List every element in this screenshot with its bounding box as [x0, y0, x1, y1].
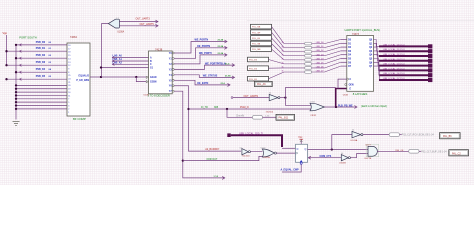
- svg-text:POL_E5: POL_E5: [249, 79, 258, 81]
- wire PSB_D2 to comparator pin: [15, 57, 67, 59]
- svg-text:1k: 1k: [282, 63, 284, 65]
- net flag POL_E4: [248, 66, 269, 71]
- target box PAL_A6: [255, 81, 273, 86]
- net flag POL_WT: [251, 30, 272, 35]
- wire Y6 drop to inverter: [174, 86, 241, 151]
- svg-text:U102A: U102A: [263, 156, 270, 159]
- svg-text:U477B: U477B: [365, 158, 372, 160]
- background grid: [0, 0, 474, 185]
- svg-text:PLB_PB_WE: PLB_PB_WE: [338, 104, 353, 107]
- svg-text:PSB_D4: PSB_D4: [36, 68, 46, 71]
- svg-text:U103A: U103A: [351, 139, 358, 142]
- svg-text:LBB_D0: LBB_D0: [316, 42, 325, 44]
- svg-text:OUT_UART3: OUT_UART3: [136, 17, 151, 20]
- arrow Y7 wire end: [222, 176, 225, 179]
- svg-text:POL_LB: POL_LB: [252, 38, 260, 40]
- svg-text:8: 8: [68, 72, 69, 74]
- wire FF clear to label: [282, 164, 301, 172]
- inverter U9: [352, 131, 363, 137]
- wire fan to resistor R2: [284, 47, 305, 49]
- svg-text:OUT_UARTN: OUT_UARTN: [244, 95, 259, 98]
- wire flag POL_LB to resistor: [272, 38, 285, 52]
- wire bead B3 out: [419, 150, 421, 152]
- svg-text:7: 7: [68, 99, 69, 101]
- wire Q4 to bus bar: [374, 55, 380, 66]
- and-gate U11: [366, 144, 379, 156]
- svg-text:10: 10: [68, 45, 70, 47]
- svg-text:LBB_LOCAL_D[0..7]: LBB_LOCAL_D[0..7]: [239, 131, 263, 135]
- ferrite bead B3: [409, 150, 419, 154]
- wire Y5 output OE_EXTN: [174, 80, 230, 86]
- ferrite bead B1: [253, 116, 263, 120]
- svg-text:21-24: 21-24: [218, 52, 224, 55]
- net label PSB_D3: [36, 61, 52, 64]
- wire fan to resistor R7: [284, 67, 305, 69]
- or-gate U4: [310, 103, 325, 111]
- wire inverter out to junction: [280, 96, 287, 98]
- svg-text:WE_PORTP/TBLN: WE_PORTP/TBLN: [205, 62, 226, 65]
- net label PSB_D1: [36, 47, 52, 50]
- svg-text:16: 16: [68, 92, 70, 94]
- wire resistor R5 to latch D4: [312, 55, 341, 60]
- wire flag POL_E5 to resistor: [269, 72, 285, 79]
- svg-text:G2BN: G2BN: [150, 82, 157, 84]
- inverter U6: [242, 149, 251, 155]
- bus bar LBB_LOCAL_D3: [379, 58, 432, 63]
- svg-text:17: 17: [68, 48, 70, 50]
- svg-text:LBB_D2: LBB_D2: [316, 50, 325, 52]
- resistor R2: [305, 46, 312, 49]
- svg-text:IO_TR: IO_TR: [201, 107, 208, 109]
- svg-text:1k: 1k: [282, 54, 284, 56]
- svg-text:OUT_UART5: OUT_UART5: [140, 23, 155, 26]
- svg-text:21-6: 21-6: [221, 83, 226, 85]
- svg-text:20: 20: [68, 85, 70, 87]
- svg-text:D: D: [297, 148, 299, 151]
- input port arrow symbol: [108, 19, 119, 28]
- latch U5 74373 body: [345, 36, 374, 92]
- bus bar LBB_LOCAL_D5: [379, 67, 432, 72]
- target box PAL_C2: [449, 150, 469, 156]
- svg-text:COM_CTS: COM_CTS: [320, 155, 332, 158]
- wire Y0 output WE_PORTN: [174, 40, 227, 53]
- svg-text:PGM_N: PGM_N: [240, 106, 249, 109]
- wire Q1 to bus bar: [374, 43, 380, 51]
- svg-text:74138: 74138: [155, 47, 163, 51]
- wire junction down to OR: [285, 98, 310, 106]
- wire comparator low pin 6: [15, 104, 67, 106]
- resistor R5: [305, 59, 312, 62]
- svg-text:2: 2: [68, 109, 69, 111]
- wire G1 input: [100, 66, 149, 68]
- svg-text:Q: Q: [305, 148, 307, 151]
- wire fan to resistor R4: [284, 55, 305, 57]
- svg-text:18: 18: [68, 52, 70, 54]
- target box PAL_B11: [276, 114, 295, 120]
- svg-text:R44_OE: R44_OE: [395, 150, 404, 152]
- svg-text:LBB_D7: LBB_D7: [316, 71, 325, 73]
- svg-text:POL_E4: POL_E4: [249, 68, 258, 70]
- wire G2BN link: [136, 77, 148, 82]
- wire OR output PLB_PB_WE: [325, 106, 358, 109]
- svg-text:PAL_B11: PAL_B11: [279, 117, 289, 120]
- svg-text:74373: 74373: [352, 33, 360, 36]
- wire PGM_N long: [189, 108, 312, 110]
- net flag POL_E5: [248, 76, 269, 81]
- wire resistor R8 to latch D7: [312, 66, 341, 72]
- svg-text:OE_EXTN: OE_EXTN: [197, 82, 208, 85]
- net label PSB_D0: [36, 41, 52, 44]
- wire comparator low pin 2: [15, 91, 67, 93]
- svg-text:21-24: 21-24: [218, 45, 224, 48]
- svg-text:3: 3: [68, 105, 69, 107]
- svg-text:POL_WT: POL_WT: [252, 32, 261, 34]
- svg-text:21-85: 21-85: [225, 76, 231, 78]
- wire U9 out to bead: [363, 134, 389, 136]
- svg-text:LBB_LOCAL_D0 21-3: LBB_LOCAL_D0 21-3: [383, 43, 405, 46]
- svg-text:LBB_D4: LBB_D4: [316, 58, 325, 60]
- decoder U2 74138 body: [146, 51, 174, 94]
- wire B input: [112, 60, 149, 62]
- wire resistor R3 to latch D2: [312, 47, 341, 52]
- resistor R4: [305, 54, 312, 57]
- ground symbol: [13, 122, 20, 126]
- svg-text:PSB_D1: PSB_D1: [36, 47, 46, 50]
- wire branch up to port: [102, 24, 109, 77]
- svg-text:8 LATCHES: 8 LATCHES: [353, 92, 368, 96]
- wire fan to resistor R1: [284, 43, 305, 45]
- bus thick LBB_LOCAL_D: [231, 135, 282, 147]
- bus bar LBB_LOCAL_D7: [379, 77, 432, 82]
- wire flag POL_E4 to resistor: [269, 67, 285, 69]
- wire bus to FF D: [282, 147, 296, 149]
- wire PSB_D1 to comparator pin: [5, 50, 67, 52]
- svg-text:P_GR_GBN: P_GR_GBN: [76, 80, 89, 82]
- svg-text:U100A: U100A: [117, 31, 124, 34]
- net flag POL_MB: [251, 47, 272, 52]
- svg-text:A_EQUAL_CMP: A_EQUAL_CMP: [281, 169, 299, 172]
- svg-text:OE_PORTN: OE_PORTN: [197, 45, 210, 48]
- svg-text:POL_NB: POL_NB: [252, 27, 261, 29]
- svg-text:WE_PORTI: WE_PORTI: [199, 52, 212, 55]
- svg-text:5: 5: [68, 102, 69, 104]
- svg-text:OEN: OEN: [349, 85, 354, 87]
- wire OUT_UARTN input: [231, 97, 269, 99]
- net label OE_EXTN: [197, 82, 226, 85]
- svg-text:14: 14: [68, 58, 70, 60]
- flip-flop U8 body: [296, 144, 308, 164]
- svg-text:LBB_D5: LBB_D5: [316, 62, 325, 64]
- wire flag POL_WT to resistor: [272, 32, 285, 47]
- wire Y2 output WE_PORTI: [174, 53, 227, 64]
- svg-text:A2_BUFRDY: A2_BUFRDY: [205, 148, 219, 151]
- wire bead to box: [263, 116, 277, 118]
- wire fan to resistor R8: [284, 71, 305, 73]
- wire bead B2 out: [400, 134, 402, 136]
- svg-text:74LS04: 74LS04: [266, 112, 274, 114]
- svg-text:PS2_CLT_BUF_OE 1-34: PS2_CLT_BUF_OE 1-34: [421, 151, 447, 153]
- wire FF Q output: [308, 148, 369, 150]
- wire fan to resistor R5: [284, 59, 305, 61]
- junction Y7 tap: [182, 159, 184, 161]
- wire resistor R1 to latch D0: [312, 40, 341, 44]
- wire to bead B1: [227, 109, 253, 117]
- svg-text:1k: 1k: [282, 42, 284, 44]
- svg-text:Chen4b: Chen4b: [236, 116, 245, 118]
- net label WE_PORTP/TBLN: [205, 62, 230, 65]
- svg-text:3 TA: 3 TA: [214, 175, 219, 178]
- net label WE_PORTI: [199, 52, 224, 55]
- svg-text:LBB_LOCAL_D7 21-3: LBB_LOCAL_D7 21-3: [383, 77, 405, 80]
- junction Y6 PGM tap: [187, 108, 189, 110]
- wire Q2 to bus bar: [374, 47, 380, 56]
- wire PSB_D5 to comparator pin: [5, 78, 67, 80]
- wire flag POL_NB to resistor: [272, 27, 285, 44]
- svg-text:74F32: 74F32: [310, 115, 317, 117]
- net flag POL_NB: [251, 24, 272, 29]
- svg-text:LBB_LOCAL_D4 21-3: LBB_LOCAL_D4 21-3: [383, 63, 405, 66]
- inverter U10: [341, 155, 350, 161]
- bus bar LBB_LOCAL_D2: [379, 53, 432, 58]
- svg-text:9: 9: [68, 68, 69, 70]
- svg-text:POL_SB: POL_SB: [252, 44, 261, 46]
- svg-text:12: 12: [68, 65, 70, 67]
- wire comparator low pin 1: [15, 88, 67, 90]
- svg-text:1-34: 1-34: [265, 116, 270, 118]
- svg-text:PAL_C2: PAL_C2: [452, 152, 461, 155]
- svg-text:LBB_LOCAL_D1 21-3: LBB_LOCAL_D1 21-3: [383, 48, 405, 51]
- svg-text:PSB_D3: PSB_D3: [36, 61, 46, 64]
- bus bar LBB_LOCAL_D6: [379, 72, 432, 77]
- svg-text:(latch is 100 bar clipsd): (latch is 100 bar clipsd): [361, 105, 387, 108]
- resistor R8: [305, 71, 312, 74]
- svg-text:19: 19: [68, 89, 70, 91]
- svg-text:1k: 1k: [282, 71, 284, 73]
- wire OUT_UART3: [119, 20, 158, 23]
- svg-text:G2AN: G2AN: [150, 76, 157, 79]
- wire resistor R4 to latch D3: [312, 51, 341, 56]
- resistor R1: [305, 42, 312, 45]
- svg-text:LBB_D1: LBB_D1: [316, 46, 325, 48]
- svg-text:3 TO 8 DECODER: 3 TO 8 DECODER: [148, 94, 170, 98]
- wire Q0 to bus bar: [374, 40, 380, 47]
- comparator U1 74684 body: [67, 43, 90, 116]
- net label WE_PORTN: [195, 39, 224, 42]
- wire A input: [112, 56, 149, 58]
- svg-text:21: 21: [68, 82, 70, 84]
- svg-text:LBB_D6: LBB_D6: [316, 66, 325, 68]
- resistor R6: [305, 63, 312, 66]
- power stub Vcc to FF: [299, 139, 303, 144]
- svg-text:PORT SOUTH: PORT SOUTH: [19, 35, 37, 39]
- svg-text:LAB_A2: LAB_A2: [113, 61, 123, 64]
- net label PSB_D5: [36, 75, 52, 78]
- wire PSB_D4 to comparator pin: [15, 71, 67, 73]
- wire comparator low pin 5: [15, 101, 67, 103]
- svg-text:PS2_CLT_RCV_ECM_OE 1-34: PS2_CLT_RCV_ECM_OE 1-34: [402, 135, 435, 137]
- svg-text:EQUAL/O: EQUAL/O: [79, 75, 90, 78]
- wire U10 out to AND: [350, 154, 368, 158]
- wire comparator low pin 7: [15, 108, 67, 110]
- wire comparator low pin 3: [15, 94, 67, 96]
- wire resistor R7 to latch D6: [312, 62, 341, 68]
- resistor R3: [305, 50, 312, 53]
- wire Q branch up to G5: [332, 135, 352, 150]
- wire comparator low pin 0: [15, 84, 67, 86]
- svg-text:PSB_D5: PSB_D5: [36, 75, 46, 78]
- svg-text:PSB_D0: PSB_D0: [36, 41, 46, 44]
- wire inverter U6 out: [250, 150, 262, 152]
- svg-text:21-5: 21-5: [225, 63, 230, 65]
- svg-text:FOR OUT: FOR OUT: [207, 158, 218, 161]
- svg-text:3FB: 3FB: [214, 107, 219, 109]
- wire PSB_D0 to comparator pin: [15, 44, 67, 46]
- svg-text:U103B: U103B: [339, 163, 346, 165]
- wire OUT_UART5: [119, 24, 158, 27]
- svg-text:24: 24: [68, 79, 70, 81]
- wire FOR OUT tap: [183, 156, 263, 160]
- wire flag POL_SB to resistor: [272, 44, 285, 56]
- svg-text:15: 15: [68, 55, 70, 57]
- wire Q6 to bus bar: [374, 62, 380, 75]
- net flag POL_LB: [251, 36, 272, 41]
- wire junction up to OEN net: [285, 88, 335, 98]
- wire resistor R6 to latch D5: [312, 59, 341, 64]
- net label PSB_D4: [36, 68, 52, 71]
- ferrite bead B2: [389, 133, 399, 137]
- wire AND out: [377, 150, 409, 152]
- wire Q5 to bus bar: [374, 59, 380, 71]
- wire Y7 drop to FOR OUT and arrow: [174, 91, 225, 178]
- wire C input: [112, 63, 149, 65]
- svg-text:UART3 PORT 1(LOCAL_BUS): UART3 PORT 1(LOCAL_BUS): [345, 28, 381, 32]
- svg-text:POL_MB: POL_MB: [252, 49, 261, 51]
- svg-text:1k: 1k: [282, 67, 284, 69]
- wire Y1 output OE_PORTN: [174, 46, 227, 58]
- svg-text:1: 1: [68, 112, 69, 114]
- svg-text:POL_E3: POL_E3: [249, 60, 258, 62]
- bus bar LBB_LOCAL_D1: [379, 48, 432, 53]
- resistor R7: [305, 67, 312, 70]
- svg-text:74684: 74684: [70, 36, 78, 39]
- wire NOR U7 output to FF: [276, 152, 295, 154]
- latch D stubs: [341, 40, 347, 67]
- inverter U3 74LS04: [269, 94, 280, 100]
- svg-text:Vpp: Vpp: [3, 31, 8, 35]
- wire flag POL_MB to resistor: [272, 49, 285, 60]
- wire Q7 to bus bar: [374, 66, 380, 80]
- wire comparator low pin 4: [15, 98, 67, 100]
- wire fan to resistor R6: [284, 63, 305, 65]
- bus thick OEN drop: [336, 89, 347, 108]
- nor-gate U7: [262, 149, 276, 157]
- net label OE_PORTN: [197, 45, 224, 48]
- svg-text:LBB_LOCAL_D5 21-3: LBB_LOCAL_D5 21-3: [383, 67, 405, 70]
- net flag POL_E3: [248, 57, 269, 62]
- wire COM_CTS: [308, 156, 341, 159]
- svg-text:U10B: U10B: [343, 95, 349, 97]
- wire Y4 output WE_STATUS: [174, 75, 234, 79]
- bus square terminal: [227, 133, 230, 137]
- svg-text:PAL_A6: PAL_A6: [257, 83, 266, 86]
- svg-text:1k: 1k: [282, 50, 284, 52]
- svg-text:LBB_D3: LBB_D3: [316, 54, 325, 56]
- latch C stub: [338, 79, 347, 88]
- svg-text:PAL_B6: PAL_B6: [443, 135, 452, 138]
- svg-text:PSB_D2: PSB_D2: [36, 54, 46, 57]
- net flag POL_SB: [251, 41, 272, 46]
- bus bar LBB_LOCAL_D0: [379, 43, 432, 48]
- svg-text:1k: 1k: [282, 46, 284, 48]
- svg-text:WE_PORTN: WE_PORTN: [195, 39, 209, 42]
- window boundary faint line: [247, 20, 474, 22]
- wire flag POL_E3 to resistor: [269, 60, 285, 64]
- bus bar LBB_LOCAL_D4: [379, 63, 432, 68]
- svg-text:BF COMP: BF COMP: [73, 117, 86, 121]
- wire Q3 to bus bar: [374, 51, 380, 61]
- svg-text:11: 11: [68, 95, 70, 97]
- net label WE_STATUS: [203, 75, 232, 78]
- svg-text:U10A: U10A: [144, 94, 150, 97]
- svg-text:LBB_LOCAL_D3 21-3: LBB_LOCAL_D3 21-3: [383, 58, 405, 61]
- wire resistor R2 to latch D1: [312, 43, 341, 47]
- wire Y3 output WE_PORTP/TBLN: [174, 64, 234, 70]
- svg-text:WE_STATUS: WE_STATUS: [203, 75, 218, 78]
- svg-text:LBB_LOCAL_D6 21-3: LBB_LOCAL_D6 21-3: [383, 72, 405, 75]
- wire EQUAL output: [90, 76, 149, 78]
- power rail Vpp vertical wire: [6, 35, 8, 65]
- svg-text:LBB_LOCAL_D2 21-3: LBB_LOCAL_D2 21-3: [383, 53, 405, 56]
- svg-text:U477: U477: [366, 145, 372, 147]
- svg-text:1k: 1k: [282, 58, 284, 60]
- svg-text:74LS04: 74LS04: [242, 156, 250, 158]
- wire PSB_D3 to comparator pin: [5, 64, 67, 66]
- svg-text:25: 25: [68, 75, 70, 77]
- svg-text:21-24: 21-24: [218, 39, 224, 42]
- svg-text:13: 13: [68, 62, 70, 64]
- target box PAL_B6: [440, 133, 461, 139]
- ground rail vertical wire: [15, 45, 17, 120]
- wire fan to resistor R3: [284, 51, 305, 53]
- net label PSB_D2: [36, 54, 52, 57]
